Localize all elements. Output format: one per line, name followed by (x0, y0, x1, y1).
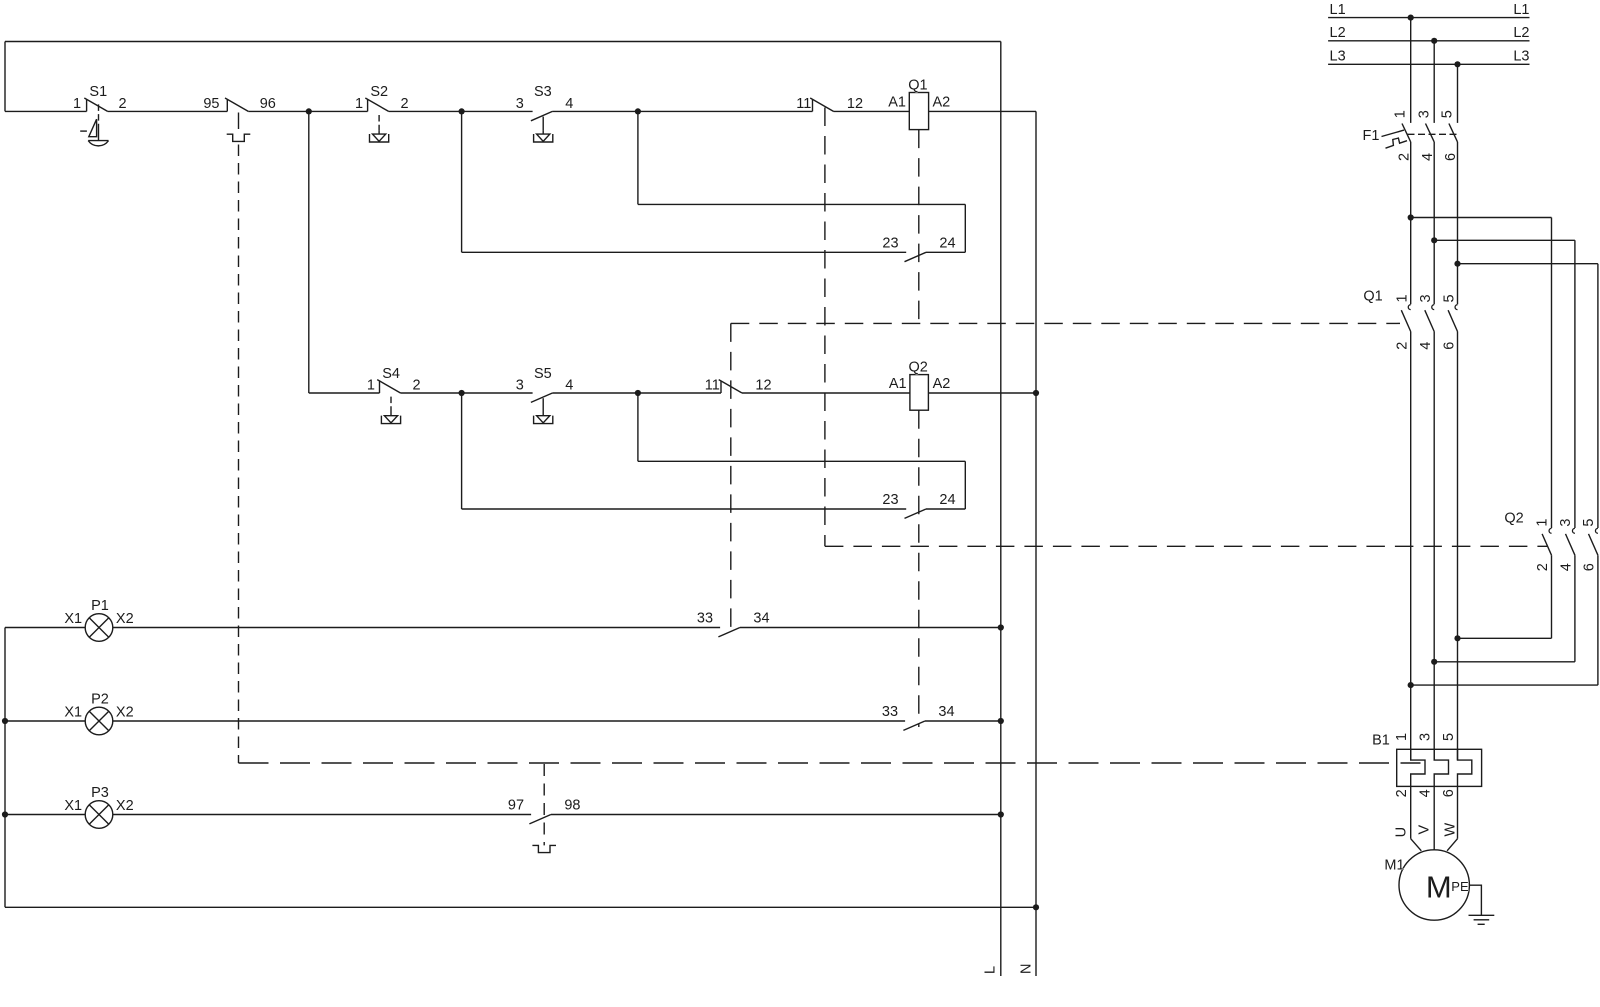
overload contact 95-96 (203, 96, 276, 112)
holding contact Q1 23-24 (882, 236, 955, 262)
node P1 L rail (998, 624, 1004, 630)
wire Q2-6 return (1411, 555, 1598, 685)
bus L1 (1328, 2, 1529, 18)
lamp contact Q2 33-34 (882, 704, 955, 730)
wire branch1 to Q2 (1411, 218, 1552, 529)
svg-text:A1: A1 (888, 95, 906, 111)
node branch2 (1431, 237, 1437, 243)
svg-text:S2: S2 (370, 84, 388, 100)
svg-text:12: 12 (755, 377, 771, 393)
svg-text:24: 24 (939, 236, 955, 252)
wire S3 to node C (552, 110, 638, 112)
overload relay B1 (1372, 733, 1481, 798)
wire S4 to node D (401, 392, 462, 394)
svg-text:98: 98 (564, 798, 580, 814)
lamp P3 (64, 785, 133, 828)
lamp P2 (64, 692, 133, 735)
svg-text:X1: X1 (64, 705, 82, 721)
wire L2 down to F1 (1433, 41, 1435, 123)
svg-text:2: 2 (1394, 789, 1410, 797)
breaker F1 (1363, 110, 1460, 161)
svg-text:X1: X1 (64, 798, 82, 814)
wire 98 to L rail (551, 814, 1001, 816)
svg-text:4: 4 (1418, 342, 1434, 350)
wire node B to S3 (462, 110, 533, 112)
svg-text:6: 6 (1443, 153, 1459, 161)
wire N rail (1035, 111, 1037, 976)
svg-text:F1: F1 (1363, 128, 1380, 144)
svg-text:N: N (1019, 964, 1035, 974)
svg-text:5: 5 (1441, 733, 1457, 741)
svg-text:96: 96 (260, 96, 276, 112)
svg-text:A2: A2 (933, 376, 951, 392)
wire S2 to node B (389, 110, 462, 112)
svg-text:1: 1 (367, 377, 375, 393)
wire branch3 to Q2 (1458, 264, 1598, 528)
svg-text:2: 2 (119, 96, 127, 112)
linkage B1 to 95-96 (227, 113, 1421, 764)
svg-text:12: 12 (847, 96, 863, 112)
node return3 (1408, 682, 1414, 688)
svg-text:U: U (1393, 827, 1409, 837)
wire P3 rung left (5, 814, 85, 816)
svg-text:5: 5 (1441, 294, 1457, 302)
svg-text:3: 3 (1416, 110, 1432, 118)
svg-text:S1: S1 (89, 84, 107, 100)
wire P3 to 97 (113, 814, 531, 816)
wire Q1-4 down to B1 (1433, 332, 1435, 761)
svg-text:M: M (1426, 870, 1452, 905)
svg-text:11: 11 (705, 377, 720, 393)
svg-text:X1: X1 (64, 611, 82, 627)
label L rail (983, 966, 999, 974)
svg-text:23: 23 (882, 236, 898, 252)
node P2 left (2, 718, 8, 724)
wire node B down to 23 (462, 111, 907, 252)
interlock contact Q2 11-12 (796, 96, 863, 112)
contactor Q1 poles (1363, 289, 1457, 350)
wire node C down (638, 111, 965, 252)
node P3 L rail (998, 811, 1004, 817)
wire 12 to coil Q1 (834, 110, 910, 112)
node C (635, 108, 641, 114)
svg-text:33: 33 (882, 704, 898, 720)
wire F1-2 down (1410, 142, 1412, 304)
wire B1-4 to motor (1433, 786, 1435, 850)
node L1 tap (1408, 15, 1414, 21)
svg-text:3: 3 (1418, 294, 1434, 302)
bus L2 (1328, 25, 1529, 41)
svg-text:6: 6 (1582, 563, 1598, 571)
svg-text:3: 3 (516, 96, 524, 112)
wire 34 to L rail (740, 627, 1001, 629)
svg-text:W: W (1442, 823, 1458, 837)
linkage B1 to 97-98 (543, 764, 545, 845)
motor M1 (1384, 850, 1469, 920)
label N rail (1019, 964, 1035, 974)
wire Q1-6 down to B1 (1457, 332, 1459, 761)
wire Q1-2 down to B1 (1410, 332, 1412, 761)
node P2 L rail (998, 718, 1004, 724)
wire coil Q2 to N rail (928, 392, 1036, 394)
svg-text:Q2: Q2 (1504, 510, 1523, 526)
wire bottom line (5, 906, 1036, 908)
svg-text:6: 6 (1441, 789, 1457, 797)
svg-text:S5: S5 (534, 366, 552, 382)
linkage coil Q2 chain (918, 410, 920, 727)
contactor Q2 poles (1504, 510, 1598, 571)
linkage coil Q1 chain (918, 130, 920, 321)
svg-text:3: 3 (1558, 519, 1574, 527)
svg-text:1: 1 (1395, 294, 1411, 302)
svg-text:4: 4 (1418, 789, 1434, 797)
linkage Q1 horizontal (731, 322, 1400, 324)
fault contact B1 97-98 (508, 798, 581, 853)
svg-text:L2: L2 (1330, 25, 1346, 41)
svg-text:2: 2 (1535, 563, 1551, 571)
svg-text:L1: L1 (1513, 2, 1529, 18)
svg-text:3: 3 (516, 377, 524, 393)
node E (635, 390, 641, 396)
wire L3 down to F1 (1457, 64, 1459, 123)
svg-text:L: L (983, 966, 999, 974)
holding contact Q2 23-24 (882, 492, 955, 518)
node P3 left (2, 811, 8, 817)
svg-text:3: 3 (1418, 733, 1434, 741)
wire branch2 to Q2 (1434, 240, 1575, 528)
stop button S4 (367, 366, 421, 424)
svg-text:S4: S4 (382, 366, 400, 382)
coil Q2 (889, 359, 951, 410)
svg-text:95: 95 (203, 96, 219, 112)
svg-text:A1: A1 (889, 376, 907, 392)
wire L rail (1000, 42, 1002, 977)
svg-text:1: 1 (1394, 733, 1410, 741)
label V (1417, 825, 1433, 835)
wire top feed line (5, 42, 1001, 112)
svg-text:Q1: Q1 (908, 78, 927, 94)
svg-text:11: 11 (796, 96, 811, 112)
svg-text:P2: P2 (91, 692, 109, 708)
wire 96 to node A (248, 110, 308, 112)
svg-text:Q2: Q2 (909, 359, 928, 375)
linkage Q2 horizontal (825, 545, 1548, 547)
wire node E down (638, 393, 965, 509)
node rung2 N (1033, 390, 1039, 396)
wire node D to S5 (462, 392, 533, 394)
wire P1 rung left (5, 627, 85, 629)
wire node A down to rung2 (309, 111, 380, 393)
wire 34 to L rail P2 (925, 720, 1001, 722)
wire coil Q1 to N rail (929, 110, 1036, 112)
svg-text:1: 1 (1534, 519, 1550, 527)
wire B1-2 to motor (1411, 786, 1422, 850)
linkage Q1 vertical (730, 323, 732, 631)
svg-text:4: 4 (565, 96, 573, 112)
svg-text:1: 1 (355, 96, 363, 112)
svg-text:4: 4 (565, 377, 573, 393)
svg-text:2: 2 (412, 377, 420, 393)
label W (1442, 823, 1458, 837)
lamp contact Q1 33-34 (697, 611, 770, 637)
wire Q2-4 return (1434, 555, 1575, 662)
stop button S2 (355, 84, 409, 142)
wire P2 to 33 (113, 720, 905, 722)
linkage Q2 vertical (824, 108, 826, 547)
wire rung1 left (5, 110, 87, 112)
svg-text:S3: S3 (534, 84, 552, 100)
svg-text:23: 23 (882, 492, 898, 508)
svg-text:2: 2 (1395, 342, 1411, 350)
node A (306, 108, 312, 114)
svg-text:2: 2 (401, 96, 409, 112)
wire P2 rung left (5, 720, 85, 722)
wire node A to S2 (309, 110, 368, 112)
emergency stop S1 (73, 84, 127, 146)
svg-text:L3: L3 (1330, 49, 1346, 65)
wire 24 up (926, 251, 965, 253)
svg-text:5: 5 (1440, 110, 1456, 118)
svg-text:34: 34 (938, 704, 954, 720)
svg-text:Q1: Q1 (1363, 289, 1382, 305)
svg-text:PE: PE (1451, 879, 1469, 894)
label U (1393, 827, 1409, 837)
svg-text:33: 33 (697, 611, 713, 627)
wire S1 to 95 (108, 110, 228, 112)
svg-text:P3: P3 (91, 785, 109, 801)
svg-text:X2: X2 (116, 611, 134, 627)
svg-text:A2: A2 (933, 95, 951, 111)
svg-text:1: 1 (73, 96, 81, 112)
node B (459, 108, 465, 114)
wire P1 to 33 (113, 627, 720, 629)
interlock contact Q1 11-12 (705, 377, 772, 393)
svg-text:B1: B1 (1372, 733, 1390, 749)
wire Q2-2 return (1458, 555, 1552, 638)
lamp P1 (64, 598, 133, 641)
node L2 tap (1431, 38, 1437, 44)
node branch1 (1408, 214, 1414, 220)
svg-text:1: 1 (1393, 110, 1409, 118)
wire 12 to coil Q2 (742, 392, 910, 394)
node bottom N (1033, 904, 1039, 910)
svg-text:4: 4 (1558, 563, 1574, 571)
svg-text:4: 4 (1420, 153, 1436, 161)
svg-text:L2: L2 (1513, 25, 1529, 41)
svg-text:6: 6 (1441, 342, 1457, 350)
node L3 tap (1454, 61, 1460, 67)
svg-text:V: V (1417, 825, 1433, 835)
ground PE (1469, 885, 1495, 924)
node D (459, 390, 465, 396)
wire lamp left rail (4, 628, 6, 908)
wire F1-6 down (1457, 142, 1459, 304)
node branch3 (1454, 261, 1460, 267)
coil Q1 (888, 78, 950, 130)
svg-text:X2: X2 (116, 798, 134, 814)
svg-text:97: 97 (508, 798, 524, 814)
node return1 (1454, 635, 1460, 641)
start button S5 (516, 366, 574, 424)
svg-text:X2: X2 (116, 705, 134, 721)
svg-text:34: 34 (753, 611, 769, 627)
wire node D down to 23 (462, 393, 907, 509)
bus L3 (1328, 49, 1529, 65)
wire S5 to node E (552, 392, 638, 394)
svg-text:P1: P1 (91, 598, 109, 614)
start button S3 (516, 84, 574, 142)
wire 24 up rung2 (926, 508, 965, 510)
svg-text:5: 5 (1581, 519, 1597, 527)
svg-text:L3: L3 (1513, 49, 1529, 65)
wire node C to Q2 interlock (638, 110, 813, 112)
wire B1-6 to motor (1447, 786, 1457, 850)
wire node E to Q1 interlock (638, 392, 721, 394)
svg-text:L1: L1 (1330, 2, 1346, 18)
wire L1 down to F1 (1410, 18, 1412, 123)
node return2 (1431, 659, 1437, 665)
svg-text:24: 24 (939, 492, 955, 508)
svg-text:M1: M1 (1384, 858, 1404, 874)
wire F1-4 down (1433, 142, 1435, 304)
